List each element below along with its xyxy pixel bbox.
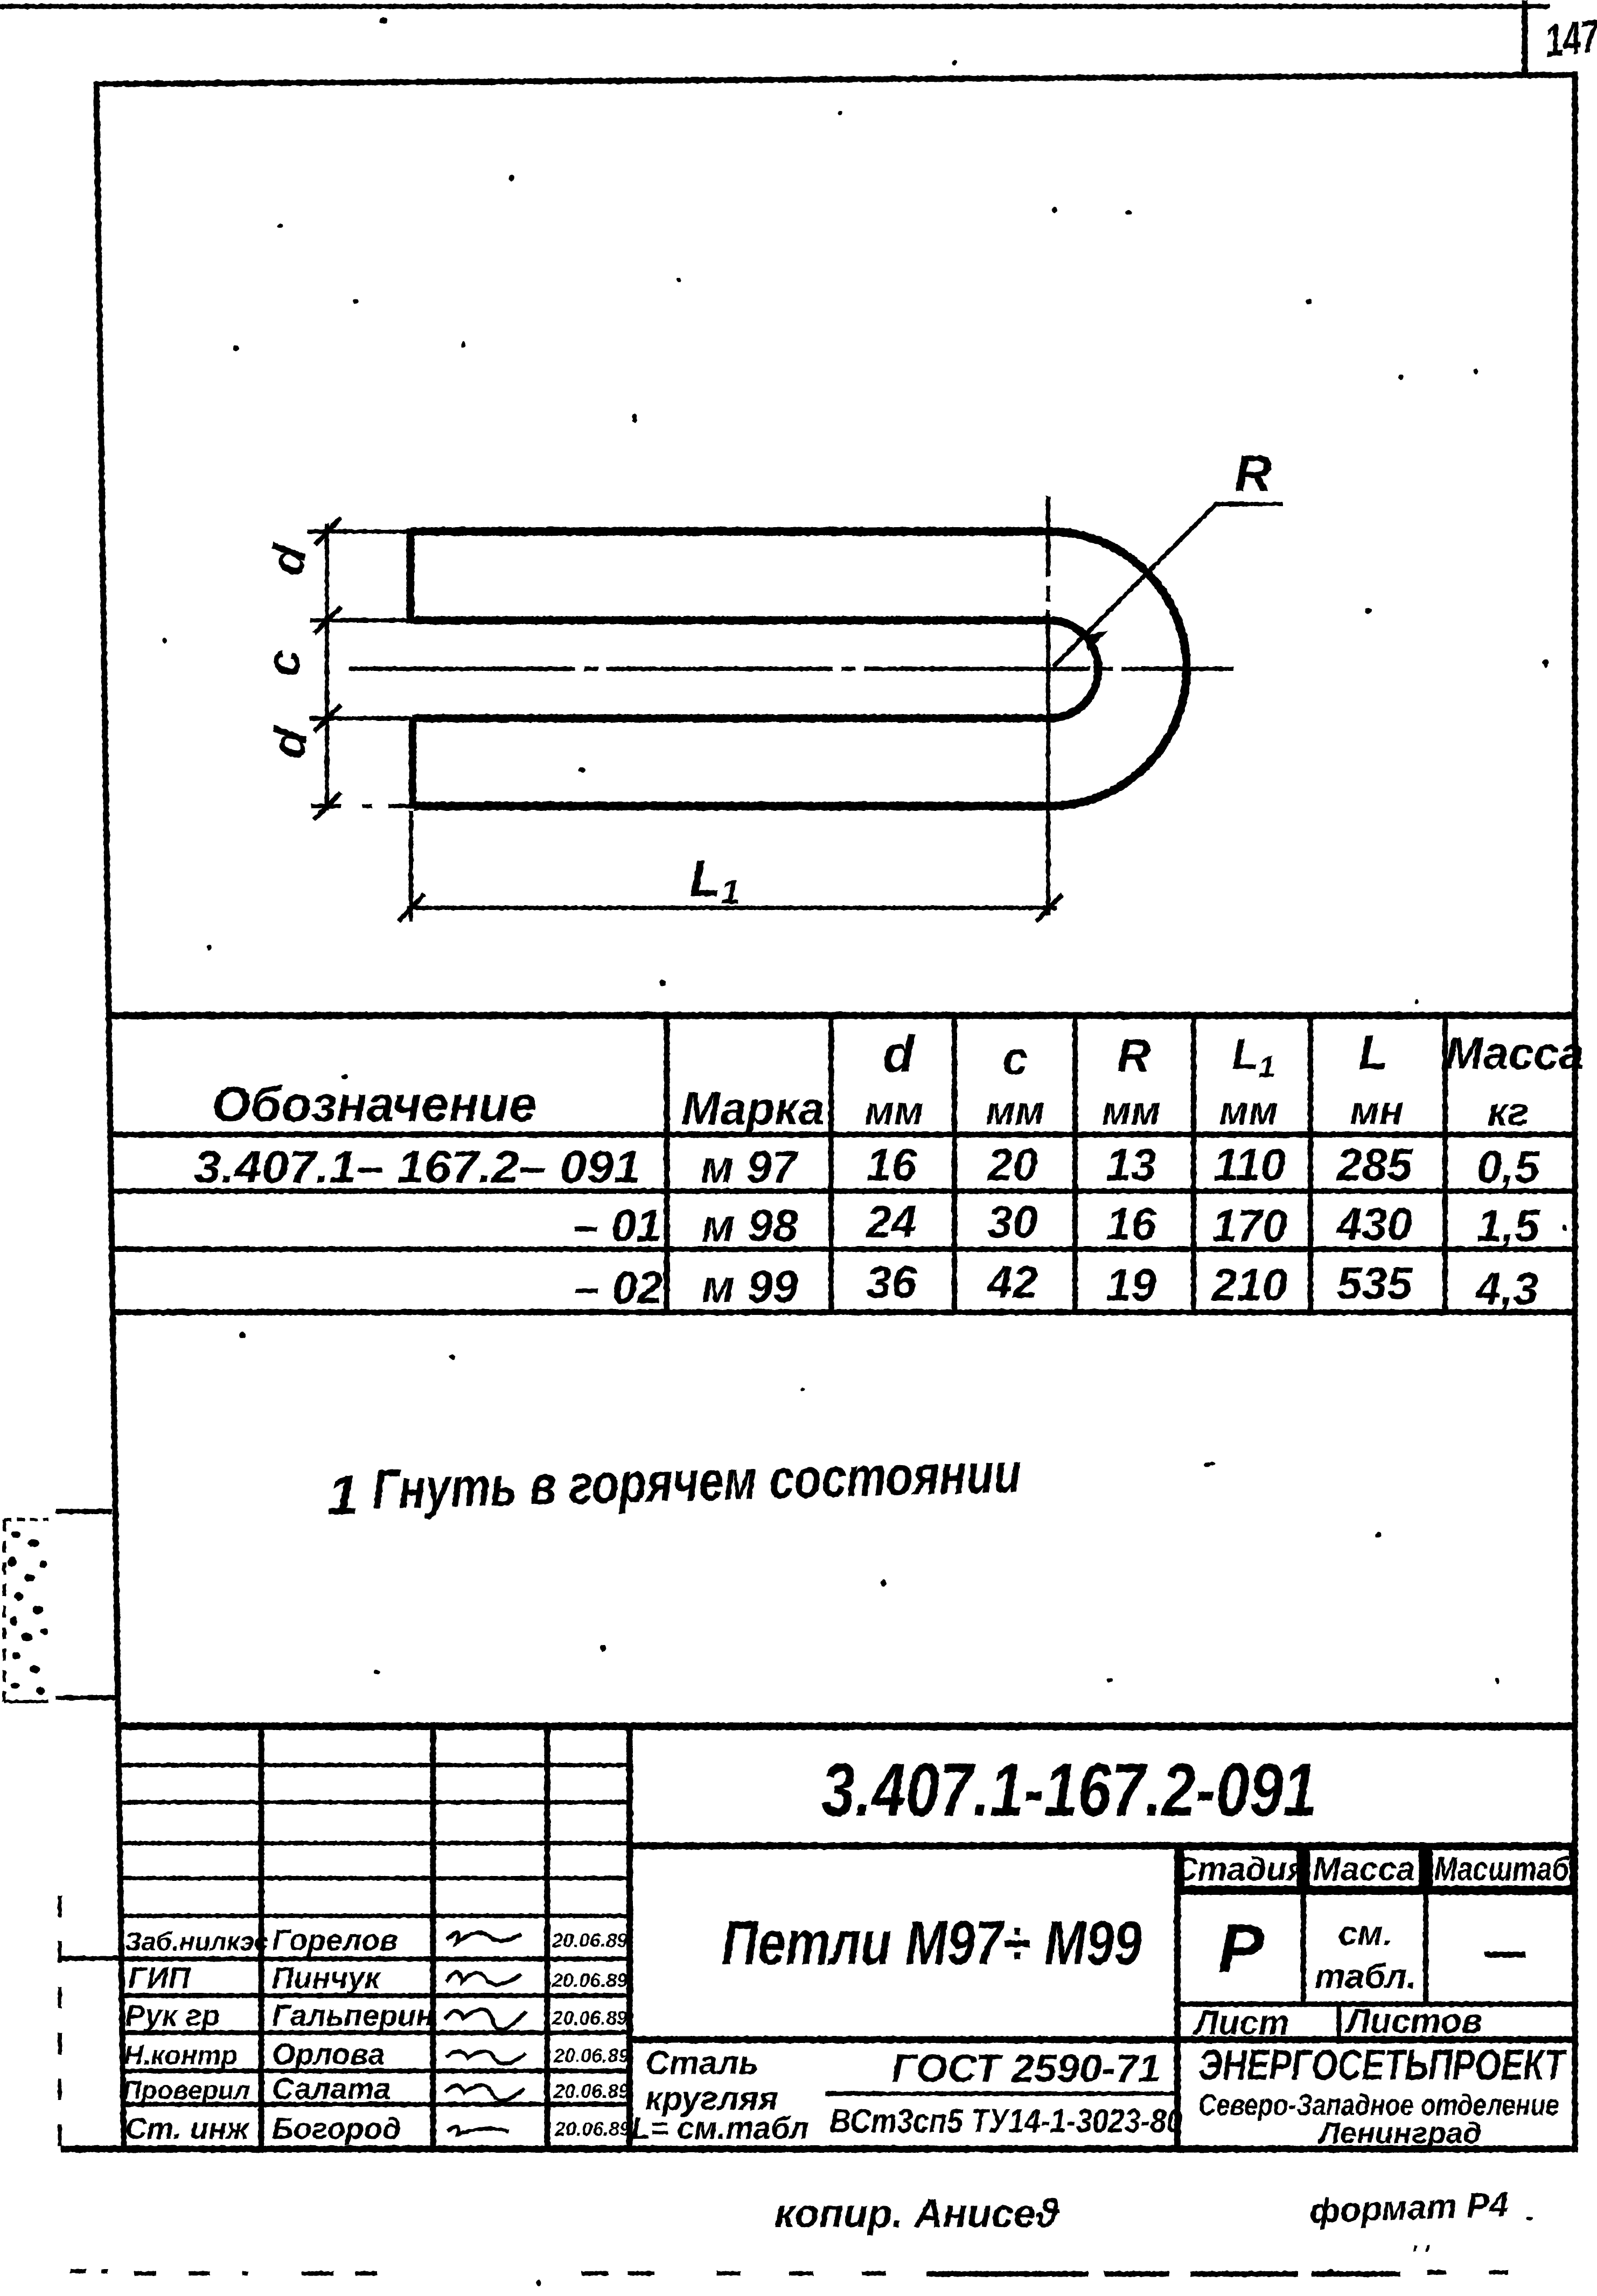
signature column line 1 <box>259 1726 264 2148</box>
svg-text:мм: мм <box>1101 1088 1160 1133</box>
svg-text:3.407.1-167.2-091: 3.407.1-167.2-091 <box>821 1747 1317 1832</box>
column line obozn/marka <box>664 1016 670 1312</box>
scale value dash <box>1484 1952 1525 1958</box>
horizontal centerline <box>349 667 1233 671</box>
svg-text:– 02: – 02 <box>575 1262 663 1313</box>
table row1 line <box>111 1188 1575 1194</box>
radius leader arrowhead <box>1084 632 1107 650</box>
svg-text:1: 1 <box>721 872 740 911</box>
svg-text:– 01: – 01 <box>574 1200 662 1251</box>
radius leader R <box>1054 504 1283 667</box>
svg-text:c: c <box>256 650 310 676</box>
vertical bend centerline <box>1046 496 1050 915</box>
svg-text:Масса: Масса <box>1313 1851 1415 1888</box>
left margin dashed vertical <box>58 1895 62 2147</box>
svg-text:42: 42 <box>986 1257 1037 1307</box>
svg-text:0,5: 0,5 <box>1477 1142 1540 1192</box>
svg-text:′ ′: ′ ′ <box>1411 2241 1431 2267</box>
name cell / material cell divider <box>630 2036 1575 2043</box>
column line L1/L <box>1308 1016 1313 1312</box>
left margin binding hatch block <box>4 1520 48 1702</box>
column line L/Macca <box>1442 1016 1448 1312</box>
svg-text:Орлова: Орлова <box>272 2037 385 2071</box>
table row2 line <box>113 1247 1575 1252</box>
svg-text:535: 535 <box>1337 1258 1413 1308</box>
svg-text:мн: мн <box>1350 1088 1403 1133</box>
stage column divider <box>1174 1846 1181 2146</box>
svg-text:c: c <box>1002 1033 1028 1084</box>
dimension extension line 2 <box>310 618 410 622</box>
mass column divider <box>1301 1846 1306 2004</box>
scan top edge line <box>0 4 1550 9</box>
svg-text:м 98: м 98 <box>702 1200 798 1251</box>
svg-text:d: d <box>259 540 317 579</box>
title block top line <box>118 1723 1575 1730</box>
svg-text:Листов: Листов <box>1344 2001 1482 2040</box>
table bottom line <box>113 1310 1575 1315</box>
table header texts <box>212 1025 1584 1135</box>
svg-text:20.06.89: 20.06.89 <box>554 2118 630 2140</box>
svg-text:L: L <box>1359 1026 1389 1080</box>
svg-text:Марка: Марка <box>681 1083 825 1135</box>
svg-text:20: 20 <box>986 1139 1037 1190</box>
U-loop outer edge (top bar top, bend, bottom bar bottom) <box>410 531 1187 806</box>
svg-text:м 99: м 99 <box>702 1261 798 1312</box>
svg-text:20.06.89: 20.06.89 <box>553 2045 629 2067</box>
U-loop left end cut (bottom bar) <box>409 716 416 808</box>
svg-text:м 97: м 97 <box>701 1142 799 1192</box>
svg-text:мм: мм <box>864 1088 923 1133</box>
svg-text:R: R <box>1235 445 1272 502</box>
svg-text:Р: Р <box>1218 1910 1264 1987</box>
svg-text:Рук гр: Рук гр <box>125 1998 220 2032</box>
dimension ticks on vertical dim line <box>314 518 341 820</box>
svg-text:Лист: Лист <box>1192 2003 1289 2042</box>
svg-text:формат Р4: формат Р4 <box>1309 2185 1509 2230</box>
svg-text:Ст. инж: Ст. инж <box>125 2111 250 2145</box>
scale header box <box>1431 1848 1572 1888</box>
list/listov divider <box>1337 2004 1342 2040</box>
svg-text:R: R <box>1117 1030 1150 1082</box>
stage header box <box>1182 1848 1299 1888</box>
svg-text:L= см.табл: L= см.табл <box>631 2111 809 2146</box>
L1 dimension ticks <box>399 894 1062 921</box>
U-loop inner edge (top bar bottom, inner bend, bottom bar top) <box>410 620 1098 718</box>
table data rows <box>194 1139 1540 1314</box>
svg-text:Масса: Масса <box>1445 1028 1584 1079</box>
svg-text:16: 16 <box>866 1139 917 1190</box>
material fraction line <box>825 2091 1174 2096</box>
svg-text:Пинчук: Пинчук <box>272 1961 381 1994</box>
column line d/c <box>952 1016 957 1312</box>
svg-text:19: 19 <box>1106 1259 1156 1310</box>
svg-text:L: L <box>689 850 721 907</box>
column line marka/d <box>828 1016 834 1312</box>
dimension extension line 4 (dashed) <box>311 804 501 808</box>
left margin tick 1 <box>56 1509 112 1514</box>
svg-text:1,5: 1,5 <box>1477 1200 1540 1251</box>
svg-text:20.06.89: 20.06.89 <box>552 1929 627 1951</box>
svg-text:210: 210 <box>1211 1259 1287 1310</box>
svg-text:1: 1 <box>1258 1049 1275 1083</box>
svg-text:d: d <box>260 723 318 762</box>
table top line <box>109 1012 1575 1019</box>
svg-text:Салата: Салата <box>272 2071 391 2105</box>
svg-text:табл.: табл. <box>1315 1957 1417 1996</box>
svg-text:кг: кг <box>1488 1089 1529 1134</box>
L1 dimension line <box>407 906 1057 910</box>
column line c/R <box>1072 1016 1078 1312</box>
svg-text:Гнуть в горячем состоянии: Гнуть в горячем состоянии <box>372 1441 1022 1521</box>
svg-text:Масштаб: Масштаб <box>1434 1851 1570 1888</box>
svg-text:копир. Анисеϑ: копир. Анисеϑ <box>775 2191 1061 2236</box>
left margin tick 2 <box>56 1696 120 1700</box>
svg-text:1: 1 <box>327 1464 359 1527</box>
svg-text:Сталь: Сталь <box>645 2045 759 2082</box>
dimension extension line 3 <box>310 716 413 720</box>
stage/mass header underline <box>1177 1889 1575 1895</box>
svg-text:36: 36 <box>866 1257 917 1307</box>
left margin tick 3 <box>58 1956 121 1961</box>
list row top line <box>1177 2001 1575 2007</box>
svg-text:Обозначение: Обозначение <box>212 1077 537 1132</box>
svg-text:ГИП: ГИП <box>128 1961 191 1994</box>
scan bottom edge dashes <box>70 2271 1540 2274</box>
svg-text:ЭНЕРГОСЕТЬПРОЕКТ: ЭНЕРГОСЕТЬПРОЕКТ <box>1198 2041 1567 2089</box>
svg-text:ГОСТ 2590-71: ГОСТ 2590-71 <box>891 2047 1161 2090</box>
svg-text:Ленинград: Ленинград <box>1317 2116 1481 2150</box>
svg-text:110: 110 <box>1214 1139 1286 1190</box>
dimension extension line top (d upper) <box>307 529 410 534</box>
svg-text:Петли М97÷ М99: Петли М97÷ М99 <box>722 1908 1142 1978</box>
svg-text:147: 147 <box>1543 10 1597 67</box>
svg-text:430: 430 <box>1336 1199 1412 1249</box>
svg-text:30: 30 <box>987 1196 1037 1247</box>
svg-text:Н.контр: Н.контр <box>124 2040 238 2070</box>
svg-text:24: 24 <box>865 1196 916 1247</box>
svg-text:4,3: 4,3 <box>1475 1263 1539 1314</box>
svg-text:Гальперин: Гальперин <box>272 1998 434 2032</box>
signature squiggles <box>445 1933 526 2134</box>
page number separator tick <box>1522 0 1528 76</box>
signature row lines <box>119 1763 630 1767</box>
signature column line 2 <box>430 1726 436 2148</box>
U-loop left end cut (top bar) <box>407 529 415 624</box>
svg-text:Проверил: Проверил <box>123 2076 250 2105</box>
signature table right edge <box>626 1726 633 2148</box>
signature dates <box>552 1929 630 2140</box>
svg-text:16: 16 <box>1106 1199 1157 1249</box>
svg-text:ВСт3сп5 ТУ14-1-3023-80: ВСт3сп5 ТУ14-1-3023-80 <box>830 2103 1183 2140</box>
svg-text:20.06.89: 20.06.89 <box>552 2007 627 2029</box>
svg-text:285: 285 <box>1336 1139 1413 1190</box>
designation cell bottom line <box>630 1843 1575 1850</box>
svg-text:13: 13 <box>1106 1139 1156 1190</box>
title block grid <box>118 1726 1575 2148</box>
svg-text:Богород: Богород <box>272 2111 401 2145</box>
svg-text:Горелов: Горелов <box>272 1923 398 1957</box>
svg-text:мм: мм <box>1219 1088 1278 1133</box>
svg-text:см.: см. <box>1338 1914 1393 1952</box>
svg-text:20.06.89: 20.06.89 <box>553 2080 629 2102</box>
svg-text:мм: мм <box>986 1088 1044 1133</box>
signature rows <box>123 1923 434 2145</box>
parameter table grid <box>109 1016 1575 1312</box>
L1 extension line left <box>409 810 413 922</box>
scale column divider <box>1423 1846 1428 2004</box>
table header bottom line <box>111 1132 1575 1138</box>
svg-text:Заб.нилкэс: Заб.нилкэс <box>125 1928 268 1956</box>
signature column line 3 <box>545 1726 550 2148</box>
sheet border frame <box>96 82 124 2149</box>
svg-text:3.407.1– 167.2– 091: 3.407.1– 167.2– 091 <box>194 1142 641 1192</box>
column line R/L1 <box>1191 1016 1196 1312</box>
svg-text:d: d <box>883 1025 916 1083</box>
svg-text:L: L <box>1232 1030 1259 1079</box>
svg-text:20.06.89: 20.06.89 <box>552 1969 627 1991</box>
svg-text:Стадия: Стадия <box>1173 1851 1306 1888</box>
svg-text:170: 170 <box>1212 1200 1287 1251</box>
vertical dimension line d-c-d <box>325 523 329 810</box>
mass header box <box>1308 1848 1421 1888</box>
